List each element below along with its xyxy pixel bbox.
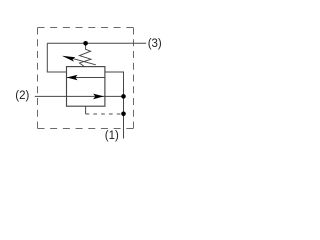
junction dot: pilot line joins port 1 line bbox=[121, 112, 126, 117]
pilot sense line dashed run to port 1 line bbox=[86, 113, 121, 115]
wire: port 3 line (top, to label (3)) bbox=[47, 42, 146, 44]
wire: port 2 line through valve (bottom flow line) bbox=[35, 95, 122, 97]
arrowhead of top flow path (points left) bbox=[67, 75, 78, 81]
wire: valve right-top connection to port 1 line bbox=[105, 72, 124, 139]
svg-text:(1): (1) bbox=[105, 130, 119, 142]
junction dot: flow line joins port 1 line bbox=[121, 94, 126, 99]
valve top flow path line (arrow left) bbox=[67, 77, 105, 79]
pilot sense line from valve bottom (solid drop) bbox=[85, 106, 87, 114]
valve body box V1 bbox=[67, 67, 105, 107]
adjustment arrow head (points up-left) bbox=[62, 56, 75, 62]
arrowhead of bottom flow path (points right) bbox=[93, 94, 104, 100]
svg-text:(3): (3) bbox=[148, 38, 162, 50]
adjustment arrow shaft across spring bbox=[72, 58, 96, 65]
spring (zigzag) above valve box bbox=[79, 45, 91, 67]
component envelope (outer dashed boundary box) bbox=[38, 28, 134, 129]
wire: pilot loop from port-3 line down to valve box left side bbox=[47, 43, 66, 72]
junction dot: spring top on port 3 line bbox=[83, 41, 88, 46]
svg-text:(2): (2) bbox=[15, 90, 29, 102]
